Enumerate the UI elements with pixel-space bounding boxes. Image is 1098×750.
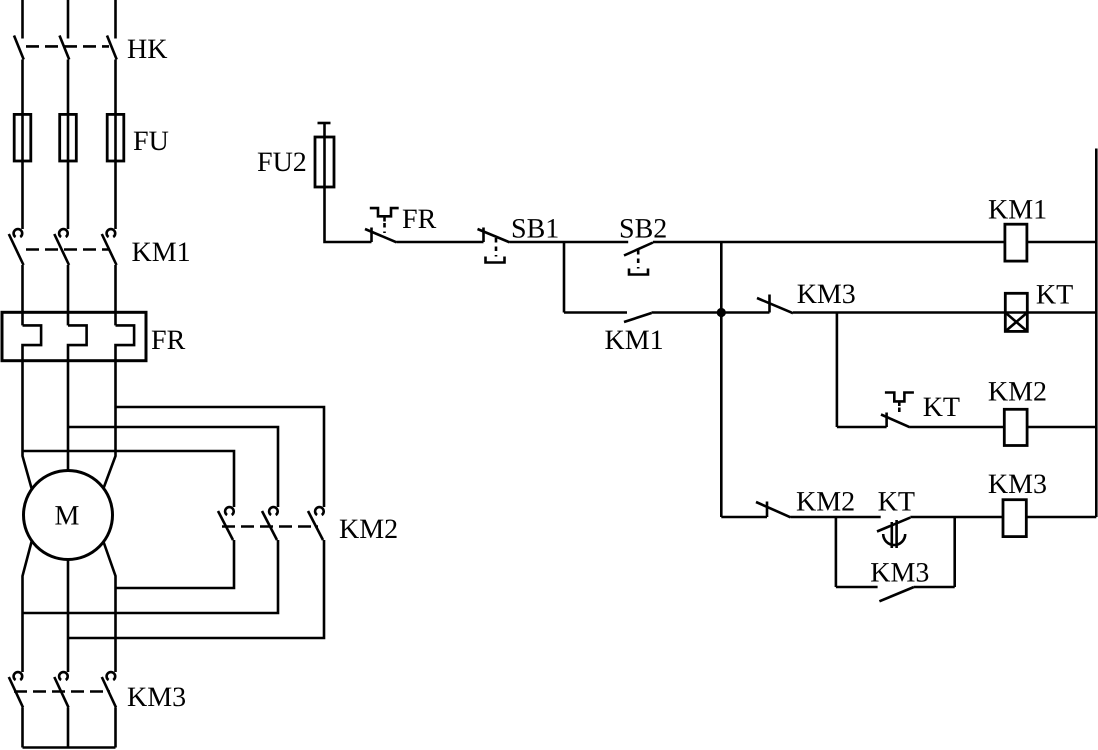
- wire L1 KM1 to FR: [21, 265, 24, 325]
- knife switch HK pole 3: [107, 36, 117, 60]
- wire KM1 coil to right rail: [1027, 241, 1096, 244]
- svg-text:KM3: KM3: [127, 682, 186, 713]
- pushbutton SB2 blade: [624, 243, 653, 256]
- KT delay stem: [898, 401, 901, 406]
- wire row3 coil to rail: [1027, 426, 1096, 429]
- contactor KM1 main pole 3 blade: [102, 234, 117, 265]
- svg-text:KM1: KM1: [988, 195, 1047, 226]
- coil KM1: [1005, 224, 1027, 261]
- right rail: [1095, 149, 1098, 518]
- svg-text:M: M: [55, 501, 80, 532]
- coil KT divider: [1005, 311, 1027, 314]
- svg-text:KM3: KM3: [870, 558, 929, 589]
- coil KM2: [1004, 409, 1027, 445]
- svg-text:FU2: FU2: [257, 147, 307, 178]
- svg-text:KM2: KM2: [988, 377, 1047, 408]
- svg-text:KT: KT: [1036, 280, 1073, 311]
- node junction dot: [717, 308, 726, 317]
- FR trip dashed link: [383, 223, 386, 233]
- FR heater element 1: [23, 325, 42, 360]
- fuse FU pole 3 wire through: [114, 114, 117, 161]
- contactor KM3 pole 2 arc: [59, 672, 68, 680]
- contactor KM2 pole 3 arc: [315, 507, 324, 515]
- wire row3 left: [837, 426, 887, 429]
- wire row4 mid: [791, 516, 881, 519]
- wire main vertical rail 2: [720, 242, 723, 517]
- wire L2 FU to KM1: [67, 161, 70, 229]
- contact KM2 NC tick: [766, 502, 769, 518]
- svg-text:KM2: KM2: [796, 487, 855, 518]
- contact KT delayed tick: [885, 413, 888, 428]
- contact KM3 NC blade: [757, 298, 793, 313]
- wire L2 KM1 to FR: [67, 265, 70, 325]
- contactor KM1 main pole 2 arc: [59, 229, 68, 237]
- FR trip stem: [383, 216, 386, 221]
- contactor KM1 main pole 1 arc: [14, 229, 23, 237]
- wire motor U2 down: [23, 542, 32, 673]
- KM3 linkage dashed: [14, 690, 110, 693]
- contactor KM1 main pole 1 blade: [9, 234, 24, 265]
- KT NO delay cup arc: [883, 534, 905, 545]
- FU2 supply tick: [318, 122, 331, 125]
- coil KM3: [1003, 500, 1026, 537]
- node tap L1 to KM2 branch a: [23, 451, 235, 507]
- FR NC contact blade: [365, 229, 397, 242]
- HK linkage dashed: [26, 45, 109, 48]
- wire row2 left: [721, 311, 769, 314]
- wire L3 FU to KM1: [114, 161, 117, 229]
- contactor KM1 main pole 2 blade: [54, 234, 69, 265]
- wire L1 FU to KM1: [21, 161, 24, 229]
- pushbutton SB1 tick: [482, 228, 485, 243]
- KT NO delay cup stem 2: [895, 520, 898, 548]
- wire KM3 parallel branch down left: [835, 517, 838, 587]
- knife switch HK pole 1: [14, 36, 24, 60]
- node tap L2 to KM2 branch b: [68, 427, 278, 507]
- fuse FU pole 1: [14, 114, 31, 161]
- wire SB2 to KM1 coil: [653, 241, 1005, 244]
- star point bar: [23, 746, 116, 749]
- wire L3 KM1 to FR: [114, 265, 117, 325]
- FR trip device symbol: [370, 208, 399, 216]
- contact KM3 NC tick: [768, 295, 771, 313]
- contactor KM2 pole 3 blade: [308, 511, 323, 540]
- svg-text:HK: HK: [127, 34, 167, 65]
- wire FR to SB1: [397, 241, 484, 244]
- wire KM3 parallel bottom right: [914, 586, 955, 589]
- KM2 linkage dashed: [222, 525, 318, 528]
- wire KM3 pole 1 to star bar: [21, 707, 24, 747]
- svg-text:FU: FU: [133, 126, 169, 157]
- fuse FU2: [315, 137, 334, 187]
- fuse FU pole 3: [107, 114, 124, 161]
- SB2 actuator: [629, 269, 648, 275]
- wire KM3 pole 2 to star bar: [67, 707, 70, 747]
- wire SB1 junction down: [563, 242, 566, 313]
- KT delay dashed link: [898, 408, 901, 417]
- svg-text:KM1: KM1: [132, 237, 191, 268]
- wire row2 right: [793, 311, 1005, 314]
- wire FU2 top stub: [323, 123, 326, 137]
- KM1 main linkage dashed: [26, 248, 109, 251]
- wire KM3 parallel bottom left: [836, 586, 878, 589]
- wire L3 FR to motor: [103, 361, 115, 489]
- svg-text:SB2: SB2: [619, 214, 667, 245]
- contact KM1 aux blade: [624, 313, 652, 322]
- svg-text:SB1: SB1: [511, 214, 559, 245]
- wire L1 HK to FU: [21, 60, 24, 115]
- wire L2 HK to FU: [67, 60, 70, 115]
- contactor KM2 pole 1 arc: [225, 507, 234, 515]
- contactor KM2 pole 1 blade: [218, 511, 233, 540]
- FR heater element 2: [68, 325, 87, 360]
- wire L1 FR to motor: [23, 361, 32, 489]
- SB2 plunger dashed: [637, 250, 640, 269]
- KT delay device symbol: [885, 393, 914, 402]
- wire row4 left: [721, 516, 767, 519]
- wire SB1 to SB2: [510, 241, 629, 244]
- knife switch HK pole 2: [60, 36, 70, 60]
- fuse FU pole 2: [60, 114, 77, 161]
- contactor KM3 pole 3 arc: [107, 672, 116, 680]
- thermal relay FR box: [2, 312, 146, 360]
- contactor KM3 pole 3 blade: [102, 677, 116, 707]
- wire latch branch right: [652, 311, 722, 314]
- wire KM2 b down to delta node: [23, 540, 279, 613]
- wire motor W2 down: [103, 542, 115, 673]
- wire KM2 c down to delta node: [68, 540, 324, 638]
- wire KM3 pole 3 to star bar: [114, 707, 117, 747]
- wire L1 feeder top: [21, 0, 24, 39]
- contact KM3 aux blade: [879, 587, 914, 601]
- contactor KM3 pole 1 arc: [14, 672, 23, 680]
- wire row3 to KM2 coil: [910, 426, 1004, 429]
- wire row4 right: [910, 516, 1003, 519]
- wire L3 feeder top: [114, 0, 117, 39]
- wire KM3 parallel up right: [953, 517, 956, 587]
- SB1 plunger dashed: [495, 238, 498, 257]
- svg-text:FR: FR: [151, 325, 186, 356]
- contactor KM2 pole 2 arc: [269, 507, 278, 515]
- wire latch branch left: [564, 311, 627, 314]
- wire motor V2 down: [67, 560, 70, 673]
- node tap L3 to KM2 branch c: [116, 407, 325, 507]
- contact KM2 NC blade: [756, 502, 791, 517]
- fuse FU pole 1 wire through: [21, 114, 24, 161]
- motor M circle: [24, 471, 113, 560]
- contactor KM3 pole 1 blade: [9, 677, 23, 707]
- contact KT delayed blade: [881, 415, 910, 428]
- wire row2 coil to rail: [1027, 311, 1096, 314]
- SB1 actuator: [486, 257, 505, 263]
- wire L3 HK to FU: [114, 60, 117, 115]
- coil KT box: [1005, 293, 1027, 331]
- wire L2 FR to motor: [67, 361, 70, 471]
- contactor KM2 pole 2 blade: [262, 511, 277, 540]
- svg-text:KM2: KM2: [339, 514, 398, 545]
- svg-text:KT: KT: [878, 487, 915, 518]
- svg-text:KM3: KM3: [797, 279, 856, 310]
- contactor KM3 pole 2 blade: [54, 677, 68, 707]
- wire row2 to row3 branch: [836, 313, 839, 428]
- fuse FU pole 2 wire through: [67, 114, 70, 161]
- pushbutton SB1 blade: [478, 229, 510, 242]
- svg-text:KT: KT: [923, 392, 960, 423]
- contactor KM1 main pole 3 arc: [107, 229, 116, 237]
- KT NO delay cup stem 1: [890, 522, 893, 548]
- coil KT X diag 1: [1005, 313, 1027, 332]
- wire L2 feeder top: [67, 0, 70, 39]
- FR heater element 3: [116, 325, 135, 360]
- wire row4 coil to rail: [1026, 516, 1096, 519]
- wire FU2 to rail corner: [325, 187, 372, 242]
- fuse FU2 wire through: [323, 137, 326, 187]
- FR NC contact tick: [370, 228, 373, 243]
- coil KT X diag 2: [1005, 313, 1027, 332]
- svg-text:KM3: KM3: [988, 469, 1047, 500]
- svg-text:FR: FR: [402, 204, 437, 235]
- contact KT NO delayed blade: [877, 518, 910, 532]
- wire KM2 a down to delta node: [116, 540, 235, 588]
- svg-text:KM1: KM1: [605, 325, 664, 356]
